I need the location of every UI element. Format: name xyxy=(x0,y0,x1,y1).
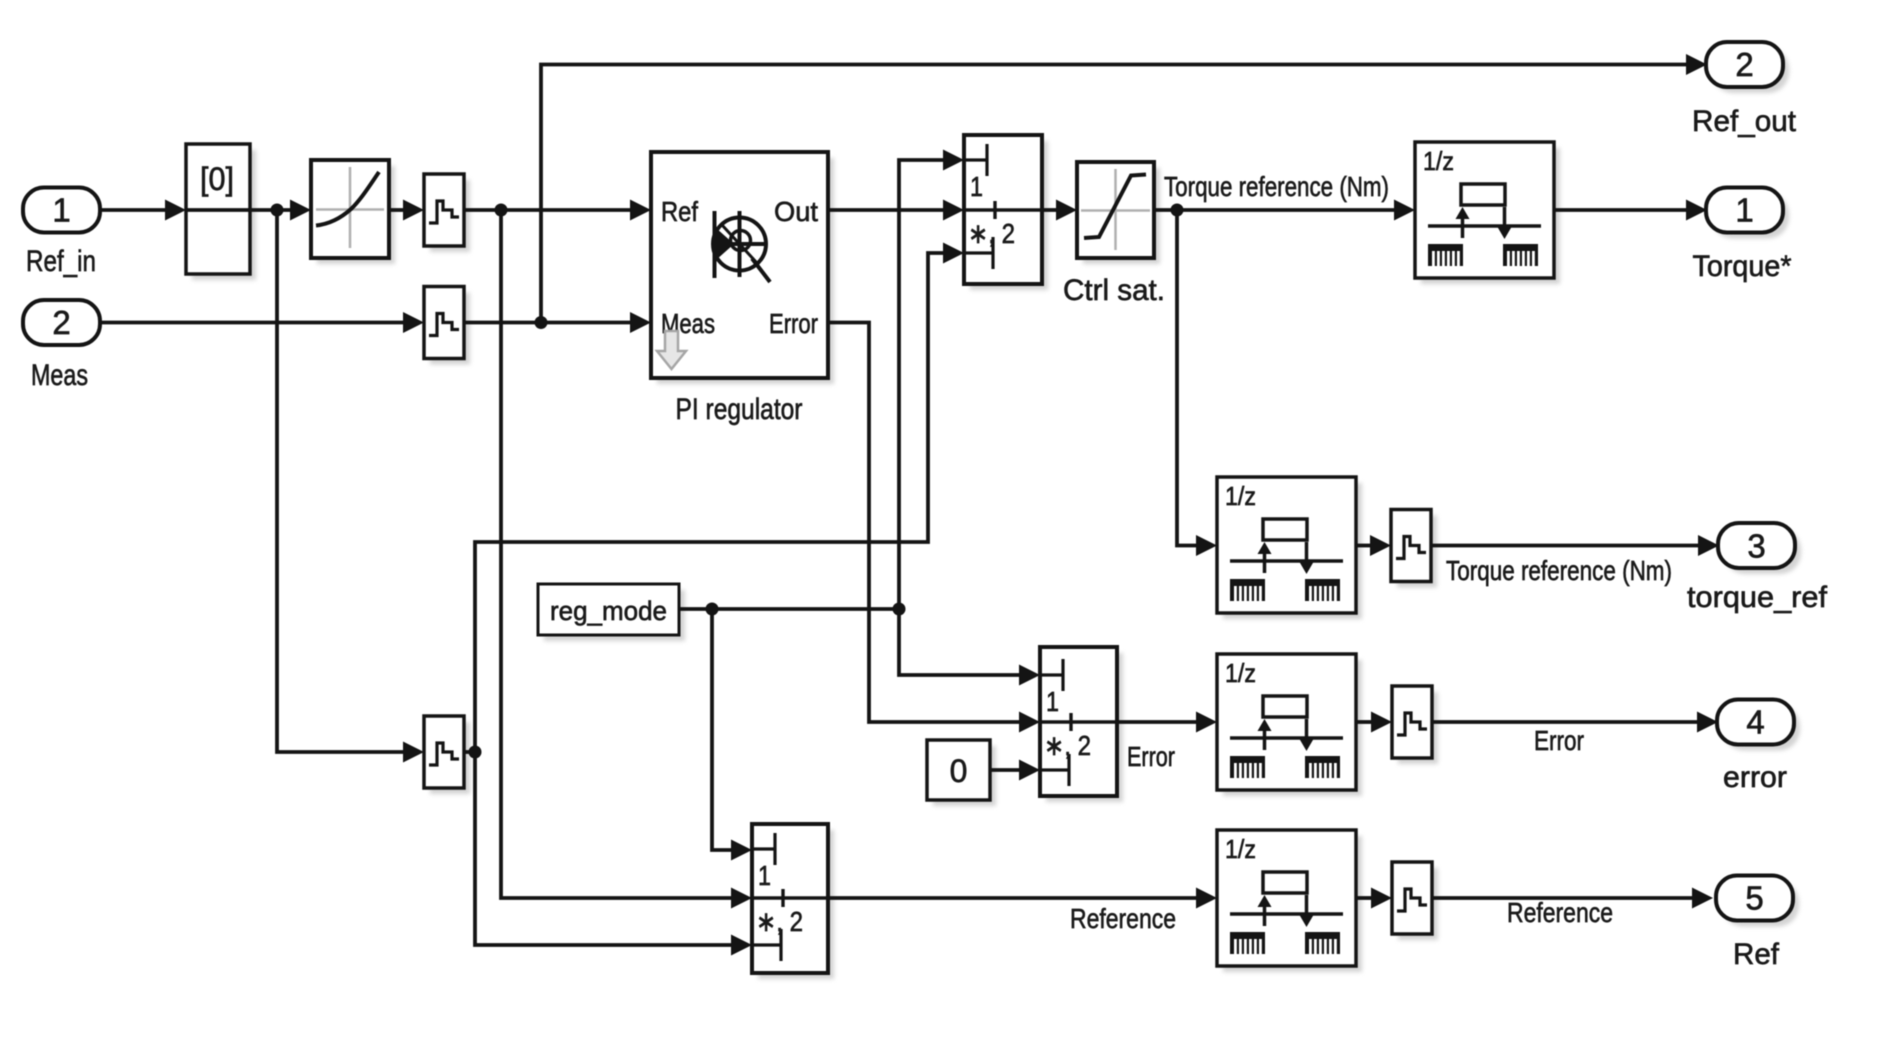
wire RT4 to port3 torque_ref xyxy=(1431,544,1699,548)
IC block [0] xyxy=(186,144,250,274)
rate transition RT4 (torque_ref row) xyxy=(1391,510,1431,582)
wire Ctrl sat to 1/z A xyxy=(1154,208,1395,212)
wire reg_mode up to SW1 input1 xyxy=(899,160,944,609)
junction after RT3 xyxy=(469,746,482,759)
svg-text:1/z: 1/z xyxy=(1225,658,1256,688)
rate transition RT3 (lower Ref path) xyxy=(424,716,464,788)
svg-text:∗, 2: ∗, 2 xyxy=(968,218,1015,249)
svg-text:∗, 2: ∗, 2 xyxy=(756,906,803,937)
svg-text:2: 2 xyxy=(52,304,70,341)
wire curve block to RT1 xyxy=(389,208,404,212)
junction on Meas wire xyxy=(535,316,548,329)
svg-text:Ref: Ref xyxy=(661,196,698,227)
wire RT2 to PI Meas xyxy=(464,321,631,325)
wire RT3 out to junction xyxy=(464,750,475,754)
svg-text:Torque reference (Nm): Torque reference (Nm) xyxy=(1446,555,1672,586)
svg-text:Error: Error xyxy=(769,308,818,339)
outport 5 Ref xyxy=(1716,876,1793,921)
svg-text:Reference: Reference xyxy=(1507,897,1613,928)
gray hint arrow below Meas xyxy=(657,331,686,369)
rate transition RT2 (Meas path) xyxy=(424,287,464,359)
svg-text:3: 3 xyxy=(1747,528,1765,565)
rate transition 1/z D (Ref) xyxy=(1217,830,1356,966)
svg-text:reg_mode: reg_mode xyxy=(550,596,667,626)
saturation block Ctrl sat. xyxy=(1077,162,1154,258)
wire 1/z D to RT6 xyxy=(1356,896,1372,900)
svg-text:∗, 2: ∗, 2 xyxy=(1044,730,1091,761)
svg-text:Ctrl sat.: Ctrl sat. xyxy=(1063,274,1165,307)
svg-text:2: 2 xyxy=(1735,46,1753,83)
wire RT1 to PI Ref xyxy=(464,208,631,212)
rate transition RT6 (Ref row) xyxy=(1392,862,1432,934)
wire Ref junction down to SW3 input2 xyxy=(501,210,732,898)
svg-text:1: 1 xyxy=(1046,686,1059,717)
PI regulator icon xyxy=(713,211,770,282)
wire 0 const to SW2 input3 xyxy=(990,768,1020,772)
switch SW2 (middle) xyxy=(1040,647,1117,796)
outport 4 error xyxy=(1717,700,1794,745)
junction after IC block xyxy=(271,204,284,217)
svg-text:1/z: 1/z xyxy=(1225,834,1256,864)
svg-text:Ref_out: Ref_out xyxy=(1692,105,1797,138)
outport 3 torque_ref xyxy=(1718,523,1795,568)
junction after Ctrl sat xyxy=(1171,204,1184,217)
wire down-branch to SW3 input3 xyxy=(475,752,732,945)
svg-text:5: 5 xyxy=(1745,880,1763,917)
wire Meas branch up to Ref_out xyxy=(541,65,1686,323)
constant reg_mode xyxy=(538,584,679,635)
wire SW3 out to 1/z D xyxy=(828,896,1197,900)
inport 2 Meas xyxy=(23,300,100,345)
svg-text:Out: Out xyxy=(774,196,818,227)
wire junction down to 1/z B xyxy=(1177,210,1197,546)
svg-text:1/z: 1/z xyxy=(1225,481,1256,511)
rate transition 1/z C (error) xyxy=(1217,654,1356,790)
svg-text:Ref: Ref xyxy=(1733,938,1780,971)
constant 0 xyxy=(927,740,990,800)
wire 1/z C to RT5 xyxy=(1356,720,1372,724)
svg-text:[0]: [0] xyxy=(200,161,234,197)
svg-text:Error: Error xyxy=(1534,725,1584,756)
junction reg_mode 2 xyxy=(893,603,906,616)
svg-text:error: error xyxy=(1723,761,1787,794)
svg-text:Reference: Reference xyxy=(1070,903,1176,934)
wire PI Error to SW2 input2 xyxy=(828,323,1020,723)
wire RT6 to port5 Ref xyxy=(1432,896,1693,900)
switch SW1 (top) xyxy=(964,135,1042,284)
wire PI Out to SW1 input2 xyxy=(828,208,944,212)
svg-text:PI regulator: PI regulator xyxy=(676,393,803,426)
subsystem PI regulator xyxy=(651,152,828,378)
wire port2 Meas to RT2 xyxy=(100,321,404,325)
svg-text:Error: Error xyxy=(1127,741,1175,772)
wire RT5 to port4 error xyxy=(1432,720,1698,724)
wire reg_mode down to SW2 input1 xyxy=(899,609,1020,675)
rate transition RT1 (Ref path) xyxy=(424,174,464,246)
wire SW1 out to Ctrl sat xyxy=(1042,208,1057,212)
svg-text:1: 1 xyxy=(758,860,771,891)
wire junction drop to RT3 xyxy=(277,210,404,752)
svg-text:1: 1 xyxy=(1735,192,1753,229)
svg-text:0: 0 xyxy=(950,753,968,789)
curve block (lookup) xyxy=(311,160,389,258)
svg-text:Torque reference (Nm): Torque reference (Nm) xyxy=(1164,171,1389,202)
wire through IC block to curve block xyxy=(186,208,291,212)
wire 1/z A to port1 Torque* xyxy=(1554,208,1687,212)
outport 2 Ref_out xyxy=(1706,42,1783,87)
svg-text:torque_ref: torque_ref xyxy=(1687,581,1828,614)
outport 1 Torque* xyxy=(1706,188,1783,233)
svg-text:1/z: 1/z xyxy=(1423,146,1454,176)
junction on Ref wire xyxy=(495,204,508,217)
wire reg_mode to SW3 input1 xyxy=(712,609,732,850)
switch SW3 (bottom) xyxy=(752,824,828,973)
inport 1 Ref_in xyxy=(23,188,100,233)
svg-text:1: 1 xyxy=(970,171,983,202)
rate transition 1/z A (Torque*) xyxy=(1415,142,1554,278)
junction reg_mode 1 xyxy=(706,603,719,616)
rate transition 1/z B (torque_ref) xyxy=(1217,477,1356,613)
wire reg_mode output xyxy=(679,607,899,611)
rate transition RT5 (error row) xyxy=(1392,686,1432,758)
svg-text:Torque*: Torque* xyxy=(1693,250,1792,283)
wire up-branch to SW1 input3 xyxy=(475,253,944,752)
svg-text:4: 4 xyxy=(1746,704,1764,741)
svg-text:1: 1 xyxy=(52,192,70,229)
wire port1 to IC block xyxy=(100,208,166,212)
wire 1/z B to RT4 xyxy=(1356,544,1371,548)
svg-text:Meas: Meas xyxy=(31,359,88,392)
wire SW2 out to 1/z C xyxy=(1117,720,1197,724)
drop shadows xyxy=(192,150,256,280)
svg-text:Ref_in: Ref_in xyxy=(26,245,96,278)
